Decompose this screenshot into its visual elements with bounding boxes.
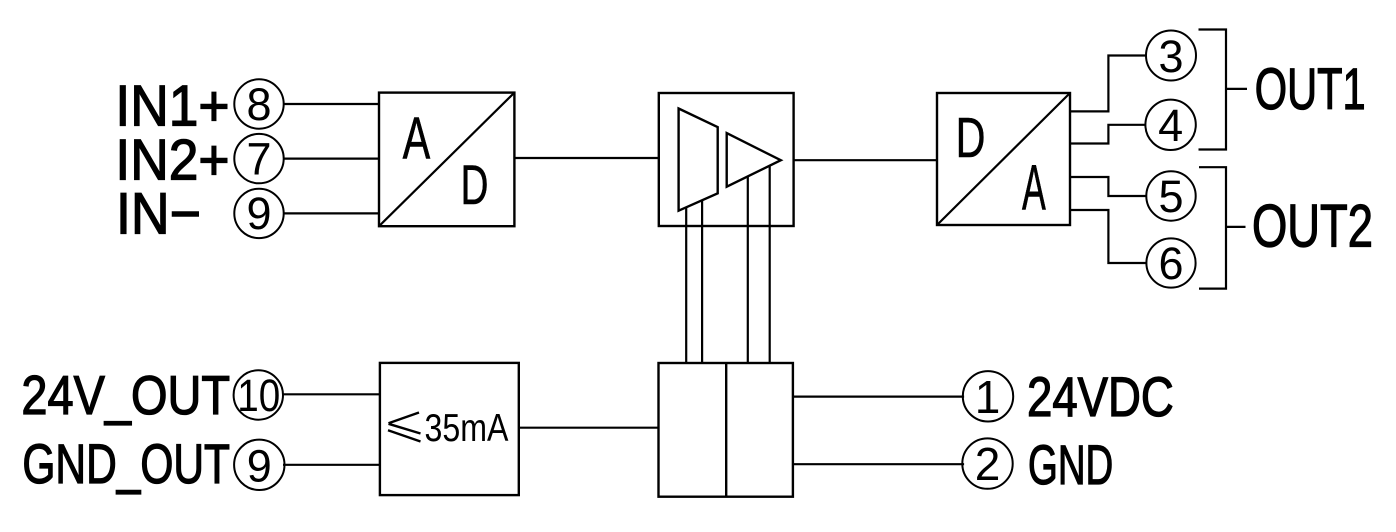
wire <box>519 427 659 429</box>
terminal 7 <box>234 133 283 184</box>
svg-text:24V_OUT: 24V_OUT <box>21 364 230 426</box>
svg-text:A: A <box>1022 151 1046 223</box>
wire <box>793 396 964 398</box>
svg-text:OUT1: OUT1 <box>1255 57 1366 122</box>
terminal 10 <box>234 370 283 421</box>
svg-text:GND_OUT: GND_OUT <box>22 433 230 495</box>
svg-text:1: 1 <box>975 371 1001 423</box>
svg-text:7: 7 <box>246 133 271 184</box>
wire <box>1070 177 1146 196</box>
current limiter U4 (<=35mA) <box>380 363 519 495</box>
wire <box>1070 210 1146 263</box>
terminal 3 <box>1146 31 1196 82</box>
svg-text:9: 9 <box>246 188 271 239</box>
bracket OUT2 <box>1199 167 1226 288</box>
power supply isolation U5 <box>659 363 793 497</box>
terminal 2 <box>962 438 1012 490</box>
wire (supply line 3) <box>747 176 749 363</box>
terminal 6 <box>1146 238 1195 289</box>
wire <box>284 103 379 105</box>
svg-text:8: 8 <box>246 79 271 130</box>
svg-text:IN−: IN− <box>116 182 201 247</box>
wire <box>794 159 937 161</box>
svg-text:3: 3 <box>1158 31 1183 82</box>
wire <box>1070 56 1146 112</box>
svg-text:6: 6 <box>1158 238 1183 289</box>
amplifier U2 <box>659 93 794 226</box>
wire <box>283 393 380 395</box>
svg-text:2: 2 <box>975 438 1001 490</box>
terminal 9 (GND_OUT) <box>234 440 284 492</box>
terminal 4 <box>1145 100 1195 151</box>
wire <box>284 158 379 160</box>
A/D converter U1 <box>379 93 514 227</box>
svg-text:4: 4 <box>1158 100 1183 151</box>
wire <box>514 157 658 159</box>
terminal 9 <box>234 188 283 239</box>
svg-text:GND: GND <box>1028 434 1113 496</box>
wire (supply line 2) <box>701 200 703 363</box>
svg-text:OUT2: OUT2 <box>1252 192 1373 260</box>
wire (supply line 4) <box>769 166 771 363</box>
terminal 5 <box>1146 171 1195 222</box>
terminal 1 <box>963 371 1013 423</box>
svg-text:35mA: 35mA <box>425 407 509 450</box>
wire <box>284 212 379 214</box>
wire (supply line 1) <box>685 207 687 363</box>
svg-text:5: 5 <box>1158 171 1183 222</box>
wire <box>1226 88 1247 90</box>
wire <box>1226 226 1246 228</box>
terminal 8 <box>234 79 283 130</box>
bracket OUT1 <box>1199 30 1227 150</box>
svg-text:10: 10 <box>237 370 280 421</box>
svg-text:D: D <box>956 106 986 169</box>
wire <box>283 464 380 466</box>
svg-text:9: 9 <box>247 440 272 491</box>
svg-text:D: D <box>461 154 489 216</box>
wire <box>793 463 964 465</box>
wire <box>1070 125 1145 144</box>
D/A converter U3 <box>937 93 1070 225</box>
svg-text:A: A <box>403 105 431 172</box>
svg-text:24VDC: 24VDC <box>1027 366 1174 428</box>
